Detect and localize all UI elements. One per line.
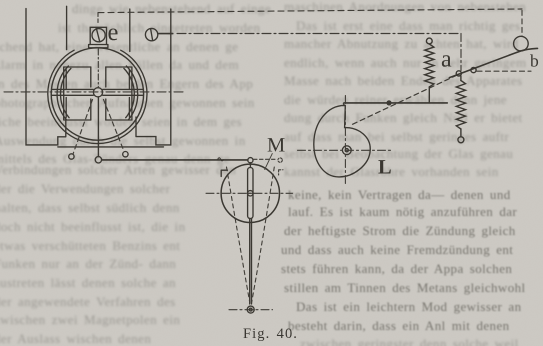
cross aperture frame	[64, 67, 132, 120]
spring S2 lower wire	[460, 129, 462, 137]
spring S2 bottom ring	[458, 137, 464, 143]
spring S1	[425, 44, 434, 87]
dash-dot drop to junction a	[460, 34, 462, 71]
dashed swing right	[252, 167, 275, 303]
dash-dot cam horizontal axis	[298, 149, 391, 151]
slot middle circle	[248, 191, 253, 196]
horizontal slot	[52, 89, 143, 95]
rim slot arc left outer	[57, 66, 68, 120]
pendulum top pivot	[248, 158, 253, 163]
bottom pivot outer	[247, 306, 254, 313]
screw e	[92, 29, 105, 42]
contact hook	[221, 170, 227, 176]
left inner wall	[66, 6, 68, 49]
pendulum slot	[248, 168, 253, 219]
lever pivot 1	[456, 71, 461, 76]
axle wire down	[97, 97, 99, 157]
lever pivot 2	[471, 68, 476, 73]
rim slot arc left inner	[61, 68, 71, 117]
pivot stem	[249, 163, 251, 168]
spring S1 lower wire	[428, 87, 430, 103]
screw terminal 1	[145, 28, 157, 40]
terminal node center	[95, 157, 101, 163]
label pointer M	[265, 154, 273, 170]
spring S2 upper wire	[460, 76, 462, 81]
base plate line	[58, 146, 164, 148]
pendulum rod	[250, 219, 252, 305]
wire to pendulum M	[102, 159, 248, 161]
chimney box	[90, 27, 106, 44]
valve wheel inner rim	[51, 48, 143, 140]
dashed lever line to b	[477, 70, 531, 72]
spring S2	[456, 81, 465, 130]
terminal node right	[123, 152, 128, 157]
spring S1 top ring	[426, 38, 432, 44]
cross aperture notches	[91, 67, 106, 120]
wire from terminal 1	[158, 33, 173, 35]
bottom pivot inner	[249, 308, 252, 311]
terminal node left	[69, 154, 74, 159]
dash-dot main axis	[4, 91, 186, 93]
cam axle inner	[345, 149, 348, 152]
chimney flange	[89, 45, 108, 48]
right inner wall	[129, 9, 131, 52]
valve wheel outer rim	[48, 50, 147, 143]
left outer wall	[26, 9, 66, 145]
dash-dot M axis	[206, 192, 293, 194]
dashed top line	[98, 9, 522, 13]
ghost bleed-through text right column	[284, 0, 526, 15]
wire squiggle	[218, 158, 224, 161]
dashed diagonal cam to a	[353, 75, 458, 125]
rod joint dot	[386, 100, 391, 105]
rim slot arc right outer	[126, 66, 137, 120]
dashed displaced wire	[254, 158, 277, 160]
snail cam L body	[314, 105, 370, 177]
slot axle line	[247, 192, 254, 194]
hub	[93, 88, 102, 97]
dashed displaced hook	[279, 170, 283, 175]
dashed diagonal hub to right node	[104, 100, 125, 152]
dash-dot bottom pivot axis	[229, 309, 273, 311]
ball b	[514, 36, 529, 51]
right outer wall	[136, 9, 171, 145]
dash-dot line terminal1 to a	[177, 33, 461, 35]
dash-dot cam vertical axis	[344, 96, 346, 187]
caption	[243, 326, 298, 343]
dash-dot chimney axis	[97, 49, 99, 87]
lever arm	[449, 48, 537, 77]
rod end hook	[343, 103, 345, 106]
dashed drop above chimney	[97, 13, 99, 24]
dashed displaced pivot	[278, 158, 282, 162]
dashed drop to ball	[521, 10, 523, 36]
dashed diagonal hub to left node	[73, 100, 92, 154]
rim slot arc right inner	[124, 68, 134, 117]
cam follower rod	[344, 102, 447, 104]
dashed swing left	[227, 167, 250, 303]
ghost bleed-through text left column	[72, 1, 271, 17]
cam axle outer	[342, 146, 351, 155]
pendulum wheel M	[221, 164, 279, 222]
